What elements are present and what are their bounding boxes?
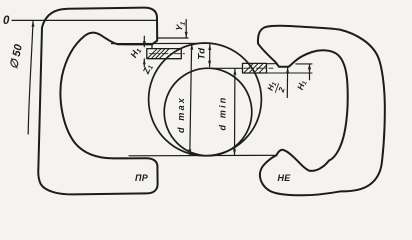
arrow Y1 down [185, 32, 188, 38]
shaft circle d_max [149, 43, 262, 156]
label Z1 left [141, 63, 156, 77]
label d min [218, 96, 228, 131]
label Td [197, 48, 208, 60]
arrow H1/2 up [286, 67, 289, 73]
arrow H1 right bottom [308, 68, 311, 73]
arrow Td top [208, 44, 211, 50]
svg-text:0: 0 [3, 15, 10, 27]
tolerance zone PR centerline [150, 53, 188, 55]
svg-text:Z1: Z1 [141, 63, 156, 77]
zero line [12, 19, 157, 21]
bottom tangent line [129, 154, 277, 157]
svg-text:H1: H1 [128, 45, 143, 60]
gauge PR jaw edge step [151, 44, 153, 48]
svg-text:H1: H1 [295, 78, 309, 91]
arrow H1 right top [308, 64, 311, 69]
svg-text:d max: d max [176, 96, 186, 133]
shaft circle d_min [164, 68, 252, 156]
tolerance zone PR rectangle [147, 49, 182, 59]
svg-text:d min: d min [218, 96, 228, 131]
label H1 left [128, 45, 143, 60]
label d max [176, 96, 186, 133]
dimension line d_min [234, 69, 236, 155]
svg-text:2: 2 [277, 86, 288, 95]
arrow d_min bottom [233, 149, 236, 155]
d_max level line [112, 42, 213, 44]
arrow d50 top [32, 21, 35, 27]
arrow d_min top [233, 69, 236, 75]
d_min level line [211, 67, 243, 69]
gauge PR outline (left C-shaped snap gauge) [38, 8, 157, 195]
svg-text:∅ 50: ∅ 50 [8, 42, 25, 70]
label H1/2 fraction [266, 80, 288, 96]
svg-text:ПР: ПР [135, 173, 149, 183]
dimension line H1 right [309, 64, 311, 80]
label Y1 [174, 20, 187, 32]
tolerance zone NE centerline [244, 67, 273, 69]
arrow Z1 lower up [143, 59, 146, 65]
NE zone extension bottom line [267, 72, 313, 74]
tolerance zone PR hatching [148, 49, 169, 59]
NE zone extension top line [267, 63, 313, 65]
wear limit line Y1 [158, 37, 188, 39]
arrow d_max bottom [188, 149, 191, 155]
dimension line Td [209, 44, 211, 66]
arrow Td bottom [208, 61, 211, 67]
dimension line d_max [190, 44, 192, 155]
svg-text:Td: Td [197, 48, 208, 60]
dimension line Z1 upper [143, 36, 145, 66]
arrow d_max top [190, 44, 193, 50]
dimension line d50 [28, 22, 33, 135]
svg-text:НЕ: НЕ [278, 173, 292, 183]
svg-text:Y1: Y1 [174, 20, 187, 32]
dimension line Y1 [185, 20, 187, 38]
arrow Z1 upper down [143, 41, 146, 47]
dimension line H1/2 right [286, 68, 288, 98]
label d50 [8, 42, 25, 70]
label H1 right [295, 78, 309, 91]
tolerance zone NE hatching [244, 64, 266, 73]
gauge NE outline (right C-shaped snap gauge) [258, 26, 385, 196]
tolerance zone NE rectangle [243, 63, 267, 73]
